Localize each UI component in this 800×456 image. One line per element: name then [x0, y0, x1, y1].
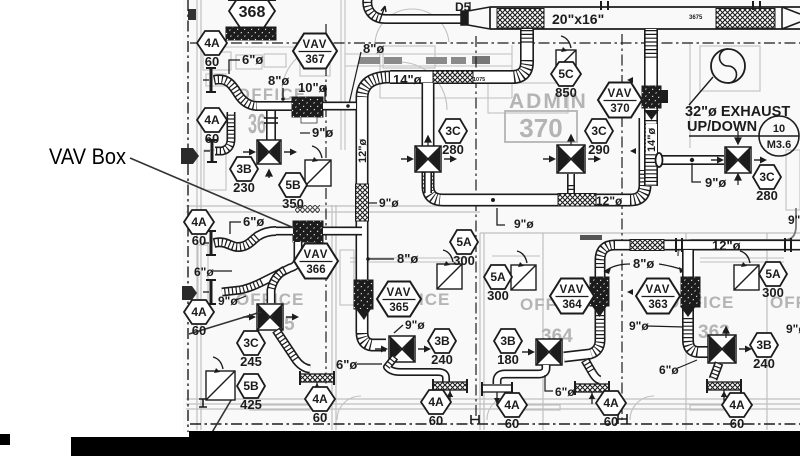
svg-text:3B: 3B: [756, 338, 772, 352]
wire duct stub to diffuser 367: [266, 111, 276, 140]
component attenuator VAV370 unit: [642, 86, 661, 108]
wire duct 12ø lower corridor: [564, 245, 800, 357]
label tiny vav tag 366: [300, 242, 316, 248]
svg-text:300: 300: [762, 285, 784, 300]
svg-text:280: 280: [442, 142, 464, 157]
component small attenuator block: [661, 90, 668, 103]
wire leader exhaust: [689, 77, 713, 105]
svg-text:5B: 5B: [285, 178, 301, 192]
node arrow up above diffuser 363: [723, 327, 729, 338]
svg-text:3C: 3C: [243, 336, 259, 350]
svg-text:4A: 4A: [204, 113, 220, 127]
svg-text:365: 365: [389, 302, 409, 314]
svg-text:4A: 4A: [312, 392, 328, 406]
svg-text:6"ø: 6"ø: [659, 363, 679, 377]
node hex tag 4A-2: [197, 108, 227, 146]
svg-text:3B: 3B: [434, 334, 450, 348]
svg-text:180: 180: [497, 352, 519, 367]
svg-text:370: 370: [519, 113, 562, 143]
node diffuser office365b: [375, 336, 431, 362]
svg-text:20"x16": 20"x16": [552, 11, 604, 27]
svg-text:9"ø: 9"ø: [218, 294, 238, 308]
node register floor office363: [707, 379, 741, 402]
svg-text:9"ø: 9"ø: [379, 196, 399, 210]
node vav tag 366: [294, 244, 338, 279]
node hex tag 5A-300b: [484, 265, 512, 303]
svg-text:3C: 3C: [759, 170, 775, 184]
svg-text:10: 10: [773, 123, 785, 135]
node flange ticks 12-inch duct: [676, 238, 791, 252]
svg-text:4A: 4A: [191, 215, 207, 229]
wire duct exhaust riser 14ø: [644, 29, 658, 186]
svg-text:60: 60: [192, 323, 206, 338]
svg-text:60: 60: [313, 410, 327, 425]
node damper sq 5B425: [206, 357, 235, 400]
wire leader line 1: [130, 158, 294, 228]
node hex tag 4A-1: [197, 31, 227, 69]
svg-text:4A: 4A: [504, 398, 520, 412]
node hex tag 4A-f3: [596, 391, 626, 429]
svg-text:9"ø: 9"ø: [629, 319, 649, 333]
wire duct diag to floor register: [276, 330, 310, 369]
component damper cone VAV365: [356, 309, 371, 320]
node register sidewall 366b: [203, 280, 633, 304]
node vav tag 363: [636, 279, 680, 314]
svg-text:6"ø: 6"ø: [242, 52, 263, 67]
node match line bottom horizontal: [190, 423, 800, 425]
node damper dot corridor: [491, 198, 495, 202]
svg-text:5B: 5B: [243, 379, 259, 393]
svg-text:4A: 4A: [204, 36, 220, 50]
node register floor office365b: [433, 379, 467, 402]
node damper sq 5A300 b: [511, 251, 536, 290]
svg-text:10"ø: 10"ø: [298, 80, 327, 95]
node clipped hex at plan edge lower: [182, 286, 197, 300]
component attenuator VAV364 unit: [590, 277, 609, 306]
component tag circle M3.6: [689, 116, 799, 156]
node hex tag 5C-850: [551, 62, 581, 100]
svg-text:240: 240: [431, 352, 453, 367]
svg-text:5A: 5A: [490, 270, 506, 284]
wire duct office367 to riser: [323, 102, 356, 111]
svg-text:363: 363: [648, 299, 667, 311]
node damper sq 5C850: [556, 36, 576, 70]
node grid line B: [325, 24, 327, 420]
svg-text:4A: 4A: [191, 305, 207, 319]
wire duct stub diffuser 3C290: [567, 174, 575, 193]
node hex tag 3B-240b: [750, 333, 778, 371]
svg-text:350: 350: [282, 196, 304, 211]
svg-text:VAV: VAV: [646, 284, 671, 296]
component plan bottom border bar: [189, 431, 800, 456]
node hex tag 4A-3: [184, 210, 214, 248]
svg-text:6"ø: 6"ø: [336, 357, 357, 372]
node hex tag 4A-f2b: [497, 393, 527, 431]
wire duct middle riser 12ø: [362, 77, 390, 345]
svg-text:60: 60: [205, 131, 219, 146]
svg-text:5A: 5A: [765, 267, 781, 281]
node register floor office365: [300, 371, 334, 394]
svg-text:9"ø: 9"ø: [312, 125, 333, 140]
svg-text:240: 240: [753, 356, 775, 371]
component crosshatch middle riser crosshatch duct section: [356, 184, 369, 221]
node register sidewall 367: [203, 68, 633, 92]
node marker I left: [199, 399, 207, 407]
svg-text:9"ø: 9"ø: [705, 175, 726, 190]
component crosshatch corridor duct crosshatch duct section: [558, 194, 596, 207]
label tiny vav tag: [301, 117, 317, 123]
node diffuser office367: [243, 140, 297, 164]
svg-text:1075: 1075: [473, 77, 485, 83]
component attenuator VAV365 unit: [354, 280, 373, 309]
component attenuator VAV366 unit: [293, 221, 323, 242]
node arrow up diffuser 3C280: [425, 136, 431, 146]
node vav tag 370: [598, 83, 642, 118]
svg-text:245: 245: [240, 354, 262, 369]
node diffuser exhaust ceiling: [711, 147, 767, 173]
node hex tag 4A-f1: [305, 387, 335, 425]
wall lower-right room rounded outline: [678, 208, 796, 256]
component crosshatch lower corridor duct crosshatch duct section: [630, 240, 664, 251]
svg-text:300: 300: [487, 288, 509, 303]
node hex tag 5B-425: [237, 374, 265, 412]
wire duct flex 366a: [214, 231, 276, 247]
svg-text:425: 425: [240, 397, 262, 412]
node register A office3: [482, 382, 512, 404]
node vav tag 364: [550, 279, 594, 314]
node hex tag 5B-350: [279, 173, 307, 211]
svg-text:VAV: VAV: [303, 39, 328, 51]
component crosshatch main duct 1 crosshatch duct section: [497, 9, 544, 29]
svg-text:8"ø: 8"ø: [268, 73, 289, 88]
wire duct 365 floor drop: [387, 357, 446, 383]
svg-text:8"ø: 8"ø: [633, 256, 654, 271]
svg-text:364: 364: [562, 299, 582, 311]
component attenuator VAV363 unit: [681, 277, 700, 307]
component small black mark far left: [0, 434, 10, 445]
node hex tag 4A-f4: [722, 393, 752, 431]
node register sidewall 367b: [204, 140, 636, 162]
furniture dark shelf admin: [359, 56, 490, 64]
wire duct 9ø exhaust branch: [658, 155, 724, 165]
svg-text:230: 230: [233, 180, 255, 195]
svg-text:12"ø: 12"ø: [712, 238, 741, 253]
svg-text:9"ø: 9"ø: [786, 322, 800, 336]
node hex tag 3B-230: [230, 157, 258, 195]
node register sidewall 366a: [203, 231, 633, 255]
wire main supply duct 20x16: [490, 7, 800, 29]
wall furniture upper office: [198, 0, 800, 420]
svg-text:3C: 3C: [591, 124, 607, 138]
component exhaust fan symbol: [711, 49, 745, 83]
svg-text:60: 60: [604, 414, 618, 429]
svg-text:370: 370: [610, 103, 629, 115]
node marker H grid C: [471, 415, 479, 424]
node damper sq 5A300 a: [437, 250, 462, 289]
node grid line C: [475, 36, 477, 420]
svg-text:5A: 5A: [456, 235, 472, 249]
node hex tag 3C-290: [585, 119, 613, 157]
component attenuator office367 VAV unit: [292, 97, 323, 117]
node hex tag 5A-300a: [450, 230, 478, 268]
svg-text:VAV: VAV: [387, 287, 412, 299]
svg-text:14"ø: 14"ø: [393, 72, 422, 87]
wire duct 366 down branch: [222, 242, 298, 292]
node hex tag 3C-280: [439, 119, 467, 157]
svg-text:6"ø: 6"ø: [243, 214, 264, 229]
node damper handle on duct: [379, 6, 386, 23]
svg-text:9"ø: 9"ø: [405, 318, 425, 332]
svg-text:VAV: VAV: [608, 88, 633, 100]
node flange ticks main duct: [601, 1, 760, 10]
node diffuser 3C 290: [543, 145, 601, 173]
wire duct diag 363 floor: [713, 363, 719, 379]
wire leader line 2: [189, 312, 261, 334]
node register floor office364: [575, 381, 609, 404]
node vav tag 365: [377, 282, 421, 317]
node diffuser 3C 280: [401, 146, 457, 172]
svg-text:850: 850: [555, 85, 577, 100]
svg-text:9"ø: 9"ø: [514, 217, 534, 231]
svg-text:366: 366: [306, 264, 325, 276]
node marker H grid D: [618, 414, 627, 424]
node grid line top horizontal: [190, 42, 800, 44]
svg-text:VAV: VAV: [560, 284, 585, 296]
svg-text:12"ø: 12"ø: [357, 139, 369, 163]
wire duct riser 363: [688, 250, 708, 352]
svg-text:3B: 3B: [500, 334, 516, 348]
component D5 inlet cone: [461, 7, 490, 29]
node hex tag 3B-240a: [428, 329, 456, 367]
node hex tag 3C-245: [237, 331, 265, 369]
node hex tag 368: [229, 0, 275, 29]
node diffuser office364: [522, 339, 562, 365]
node arrow down below exhaust diffuser: [735, 174, 741, 185]
node damper sq 5B350: [305, 146, 331, 186]
wire duct stub diffuser 3C280: [424, 172, 432, 193]
svg-text:VAV Box: VAV Box: [49, 144, 126, 169]
node hex tag 3B-180: [494, 329, 522, 367]
component crosshatch main duct 2 crosshatch duct section: [716, 9, 775, 29]
svg-text:5C: 5C: [558, 67, 574, 81]
node diffuser office365a: [243, 304, 299, 330]
svg-text:4A: 4A: [603, 396, 619, 410]
svg-text:60: 60: [205, 54, 219, 69]
svg-text:D5: D5: [455, 0, 471, 14]
node hex tag 5A-300c: [759, 262, 787, 300]
svg-text:VAV: VAV: [304, 249, 329, 261]
node hex tag 3C-280r: [753, 165, 781, 203]
component damper cone VAV363: [680, 306, 696, 317]
node clipped hex at plan edge: [181, 148, 199, 164]
node grid line D: [621, 34, 623, 420]
svg-text:367: 367: [305, 54, 324, 66]
component damper cone VAV370: [644, 110, 659, 120]
svg-text:32"ø EXHAUST: 32"ø EXHAUST: [685, 104, 790, 120]
svg-text:M3.6: M3.6: [767, 139, 791, 151]
svg-text:300: 300: [453, 253, 475, 268]
svg-text:14"ø: 14"ø: [646, 128, 658, 152]
node vav tag 367: [293, 34, 337, 69]
component bottom bar left: [71, 437, 189, 456]
wire duct 366 to riser: [276, 227, 362, 236]
node oval tap: [656, 153, 663, 167]
component crosshatch 14-inch duct crosshatch duct section: [433, 71, 473, 83]
wire duct diag 364 floor: [585, 360, 600, 380]
svg-text:4A: 4A: [428, 395, 444, 409]
svg-text:60: 60: [429, 413, 443, 428]
wire duct flex 367b: [215, 112, 231, 151]
svg-text:8"ø: 8"ø: [363, 41, 384, 56]
svg-text:368: 368: [239, 4, 266, 21]
svg-text:4A: 4A: [729, 398, 745, 412]
node damper sq 5A300 c: [734, 251, 759, 290]
node match line left edge: [187, 0, 189, 432]
component duct end cap right: [782, 7, 800, 29]
node hex tag 4A-f2: [421, 390, 451, 428]
svg-text:3B: 3B: [236, 162, 252, 176]
wall left room boundary: [186, 0, 800, 430]
wire duct riser 428 and corridor duct: [428, 83, 645, 200]
wire leader line 3: [198, 397, 233, 456]
wire duct riser to 14-inch: [390, 29, 527, 77]
label 14ø vertical backing: [646, 124, 657, 154]
svg-text:280: 280: [756, 188, 778, 203]
wire duct 364 west floor branch: [497, 365, 546, 384]
svg-text:9": 9": [788, 213, 800, 227]
svg-text:60: 60: [192, 233, 206, 248]
svg-text:6"ø: 6"ø: [555, 385, 575, 399]
wire duct top-left supply: [367, 0, 461, 19]
node hex tag 4A-4: [184, 300, 214, 338]
svg-text:3C: 3C: [445, 124, 461, 138]
svg-text:8"ø: 8"ø: [397, 251, 418, 266]
node arrow up below diffuser 367: [266, 170, 272, 178]
component attenuator top left: [226, 27, 276, 40]
node small mark at plan edge top: [188, 9, 196, 20]
node diffuser office363: [708, 335, 752, 363]
svg-text:12"ø: 12"ø: [596, 194, 623, 208]
wire duct 366 diffuser drop: [271, 270, 285, 303]
svg-text:290: 290: [588, 142, 610, 157]
node arrow from UP/DOWN to diffuser: [735, 131, 741, 144]
svg-text:60: 60: [505, 416, 519, 431]
wire duct flex office367: [214, 79, 292, 106]
node arrow up diffuser 3C290: [568, 135, 574, 145]
svg-text:60: 60: [730, 416, 744, 431]
svg-text:UP/DOWN: UP/DOWN: [687, 119, 757, 135]
component damper cone VAV364: [592, 306, 607, 317]
svg-text:6"ø: 6"ø: [194, 265, 214, 279]
svg-text:3675: 3675: [689, 15, 703, 21]
